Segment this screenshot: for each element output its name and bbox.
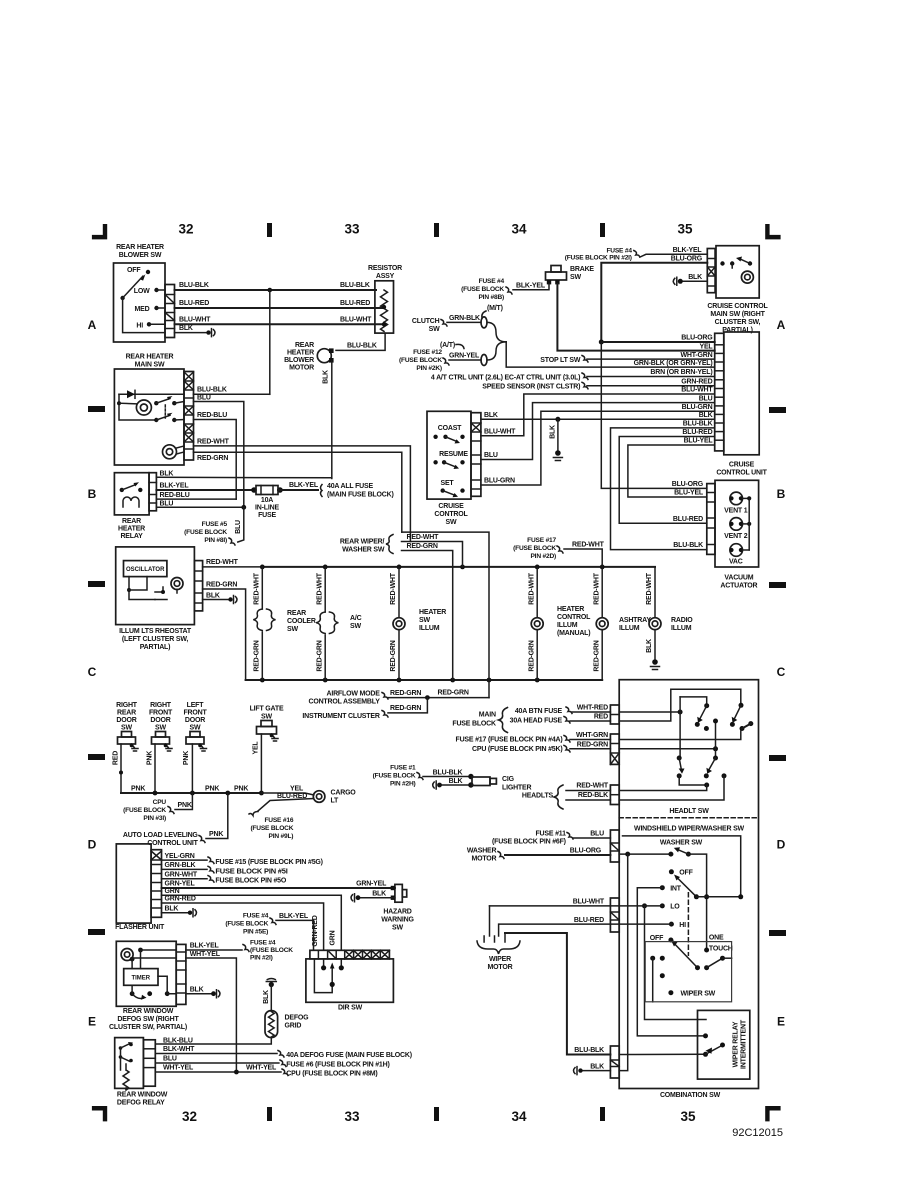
wire BLU-WHT cruise sw to unit: [481, 394, 715, 436]
svg-text:E: E: [88, 1015, 96, 1029]
svg-text:33: 33: [344, 222, 360, 237]
lamp 2: [136, 400, 151, 415]
svg-text:92C12015: 92C12015: [732, 1127, 783, 1139]
wire GRN-WHT flasher: [162, 878, 208, 880]
wire BLK combination sw ground: [582, 1070, 610, 1072]
relay coil resistor: [123, 1064, 129, 1090]
wire RED head fuse: [564, 717, 570, 724]
flasher unit connector: [151, 850, 161, 918]
svg-text:WINDSHIELD WIPER/WASHER SW: WINDSHIELD WIPER/WASHER SW: [634, 826, 745, 833]
wire RED-GRN main sw to airflow feeder: [402, 532, 489, 698]
wire wiper lower to inner box: [652, 958, 654, 1002]
svg-text:INTERMITTENT: INTERMITTENT: [741, 1019, 748, 1069]
svg-text:A: A: [88, 318, 97, 332]
wire RED-WHT fuse17 to bus: [564, 549, 602, 567]
svg-text:ILLUM LTS RHEOSTAT: ILLUM LTS RHEOSTAT: [119, 628, 192, 635]
svg-text:RED-GRN: RED-GRN: [197, 455, 228, 462]
svg-text:HI: HI: [679, 922, 686, 929]
svg-text:(A/T): (A/T): [440, 342, 455, 349]
combination sw connector D: [610, 830, 619, 862]
wire BLU-ORG to cruise unit pin: [601, 341, 714, 343]
tick right AB: [769, 407, 786, 413]
svg-text:RED-GRN: RED-GRN: [407, 543, 438, 550]
svg-text:DEFOG: DEFOG: [285, 1015, 310, 1022]
svg-text:BLK: BLK: [646, 639, 653, 653]
svg-text:BLU-BLK: BLU-BLK: [197, 386, 227, 393]
ground hazard: [356, 895, 361, 900]
timer box: [124, 969, 158, 986]
MIDDLE: [113, 532, 694, 847]
svg-text:HEADLT SW: HEADLT SW: [669, 808, 709, 815]
svg-text:PIN #8B): PIN #8B): [478, 294, 504, 301]
wire BLU-BLK resistor to blower motor: [336, 333, 385, 350]
svg-text:LT: LT: [331, 798, 340, 805]
ground cruise sw BLK: [555, 450, 561, 456]
svg-text:RED-GRN: RED-GRN: [577, 742, 608, 749]
svg-text:HI: HI: [136, 323, 143, 330]
svg-text:WHT-GRN: WHT-GRN: [680, 352, 712, 359]
wire BLK flasher to ground: [162, 912, 189, 914]
rear window defog sw box: [116, 941, 176, 1006]
ground combination sw: [578, 1068, 582, 1072]
defog sw connector: [176, 944, 186, 1004]
svg-text:WHT-YEL: WHT-YEL: [163, 1065, 194, 1072]
svg-text:GRN-YEL: GRN-YEL: [449, 353, 480, 360]
wire RED-BLU relay: [156, 498, 236, 500]
brake sw: [551, 266, 561, 273]
svg-text:COOLER: COOLER: [287, 618, 316, 625]
svg-text:BLU-WHT: BLU-WHT: [340, 316, 372, 323]
headlt sw internals: [619, 711, 680, 713]
svg-text:CONTROL: CONTROL: [557, 614, 591, 621]
svg-text:B: B: [777, 487, 786, 501]
svg-text:OFF: OFF: [127, 267, 141, 274]
defog grid element: [265, 1011, 278, 1038]
svg-text:WIPER SW: WIPER SW: [681, 991, 716, 998]
svg-text:ILLUM: ILLUM: [419, 625, 440, 632]
wire RED-WHT headlts: [566, 790, 610, 792]
svg-text:OSCILLATOR: OSCILLATOR: [126, 567, 165, 573]
svg-text:FUSE #4: FUSE #4: [250, 940, 276, 947]
relay connector strip: [149, 473, 156, 511]
svg-text:GRN-YEL: GRN-YEL: [165, 881, 196, 888]
node BLU-ORG junction: [599, 340, 604, 345]
svg-text:A: A: [777, 318, 786, 332]
rheostat internals: [129, 577, 155, 600]
svg-text:SW: SW: [287, 626, 298, 633]
svg-text:REAR: REAR: [295, 342, 314, 349]
svg-text:RED-GRN: RED-GRN: [528, 640, 535, 671]
svg-text:RED-WHT: RED-WHT: [576, 783, 609, 790]
svg-text:CONTROL ASSEMBLY: CONTROL ASSEMBLY: [308, 698, 380, 705]
wire RED-GRN airflow to bus: [388, 697, 489, 699]
svg-text:RADIO: RADIO: [671, 617, 693, 624]
rear window defog relay box: [115, 1038, 144, 1089]
lamp P: [163, 445, 177, 459]
svg-text:FUSE #4: FUSE #4: [479, 278, 505, 285]
svg-text:REAR WINDOW: REAR WINDOW: [123, 1008, 174, 1015]
svg-text:FUSE #16: FUSE #16: [264, 817, 293, 824]
tick bottom 1: [267, 1107, 272, 1121]
svg-text:(MANUAL): (MANUAL): [557, 630, 590, 637]
cruise main sw connector: [707, 249, 715, 293]
RED-WHT illumination bus: [262, 566, 655, 568]
svg-text:BLU-RED: BLU-RED: [682, 429, 712, 436]
svg-text:D: D: [777, 838, 786, 852]
svg-text:BRAKE: BRAKE: [570, 266, 594, 273]
wire GRN-BLK clutch (M/T): [447, 321, 481, 323]
svg-text:LIGHTER: LIGHTER: [502, 785, 531, 792]
blower sw connector strip: [165, 285, 175, 338]
svg-text:BLU-YEL: BLU-YEL: [674, 490, 704, 497]
svg-text:SW: SW: [392, 925, 403, 932]
svg-text:REAR HEATER: REAR HEATER: [126, 354, 174, 361]
wiper sw inner box: [645, 942, 731, 1002]
fuse #15 callout: [208, 857, 214, 864]
tick bottom 3: [600, 1107, 605, 1121]
svg-text:RED-GRN: RED-GRN: [593, 640, 600, 671]
wire GRN-YEL clutch (A/T): [449, 359, 481, 361]
node bus dots: [260, 565, 265, 570]
lamp radio illum: [649, 618, 661, 630]
svg-text:BLU-RED: BLU-RED: [277, 793, 307, 800]
svg-text:GRN-BLK (OR GRN-YEL): GRN-BLK (OR GRN-YEL): [634, 360, 713, 367]
rear heater relay box: [114, 473, 149, 515]
svg-text:CPU (FUSE BLOCK PIN #8M): CPU (FUSE BLOCK PIN #8M): [286, 1070, 377, 1077]
svg-text:BLK-YEL: BLK-YEL: [190, 943, 220, 950]
svg-text:4 A/T CTRL UNIT (2.6L) EC-AT C: 4 A/T CTRL UNIT (2.6L) EC-AT CTRL UNIT (…: [431, 374, 580, 381]
svg-text:BLU-ORG: BLU-ORG: [671, 255, 703, 262]
combination sw connector E: [610, 898, 619, 932]
svg-text:PARTIAL): PARTIAL): [140, 644, 171, 651]
svg-text:SW: SW: [350, 623, 361, 630]
relay connector: [143, 1040, 155, 1086]
svg-text:PNK: PNK: [205, 786, 219, 793]
headlt/wiper dashed divider: [619, 817, 758, 819]
svg-text:GRN-YEL: GRN-YEL: [356, 881, 387, 888]
svg-text:ASSY: ASSY: [376, 273, 395, 280]
tick top 2: [434, 223, 439, 237]
wire BLK defog sw to ground: [186, 993, 212, 995]
wiper relay contacts: [703, 1033, 708, 1038]
svg-text:CLUSTER SW, PARTIAL): CLUSTER SW, PARTIAL): [109, 1024, 187, 1031]
rear heater blower sw box: [114, 263, 166, 342]
svg-text:DEFOG RELAY: DEFOG RELAY: [117, 1100, 165, 1107]
radio illum drop: [654, 567, 656, 618]
svg-text:E: E: [777, 1015, 785, 1029]
svg-text:BLK-YEL: BLK-YEL: [289, 482, 319, 489]
svg-text:(FUSE BLOCK PIN #2I): (FUSE BLOCK PIN #2I): [565, 254, 632, 261]
svg-text:MOTOR: MOTOR: [471, 856, 496, 863]
wire BLU-RED to cargo lt: [258, 799, 314, 812]
tick right CD: [769, 755, 786, 761]
svg-text:AUTO LOAD LEVELING: AUTO LOAD LEVELING: [123, 832, 199, 839]
svg-text:COMBINATION SW: COMBINATION SW: [660, 1092, 721, 1099]
wire RED-GRN rear wiper to bus: [402, 551, 453, 681]
svg-text:35: 35: [677, 222, 693, 237]
svg-text:RED-WHT: RED-WHT: [646, 572, 653, 605]
wire BLU-ORG cruise main sw down: [601, 263, 707, 342]
svg-text:BLU-RED: BLU-RED: [340, 300, 370, 307]
washer enclosure wire: [623, 836, 741, 897]
svg-text:BLK-YEL: BLK-YEL: [160, 483, 190, 490]
wire RED-WHT rear wiper to bus: [402, 542, 463, 567]
svg-text:HAZARD: HAZARD: [383, 909, 411, 916]
rear heater main sw box: [114, 369, 184, 465]
svg-text:RED-WHT: RED-WHT: [254, 572, 261, 605]
svg-text:BLK: BLK: [372, 890, 386, 897]
wire BLK return vertical: [619, 854, 628, 1071]
wire LO junction to relay: [645, 906, 707, 1020]
wire BLU-WHT wiper motor: [610, 905, 662, 907]
svg-text:COAST: COAST: [438, 425, 462, 432]
corner mark bottom-right: [765, 1106, 780, 1121]
wire PNK auto load to bus: [206, 793, 228, 839]
svg-text:BLU-BLK: BLU-BLK: [673, 542, 703, 549]
svg-text:CPU (FUSE BLOCK PIN #5K): CPU (FUSE BLOCK PIN #5K): [472, 746, 563, 753]
svg-text:SET: SET: [440, 480, 454, 487]
svg-text:FUSE #12: FUSE #12: [413, 349, 442, 356]
wiper sw LO: [660, 903, 665, 908]
svg-text:PNK: PNK: [147, 751, 154, 765]
svg-text:(FUSE BLOCK: (FUSE BLOCK: [225, 921, 268, 928]
resistor element: [381, 290, 388, 331]
svg-text:34: 34: [511, 222, 527, 237]
relay coil: [123, 497, 139, 507]
svg-text:RED-GRN: RED-GRN: [390, 640, 397, 671]
combination sw connector B: [610, 734, 619, 764]
svg-text:BLU-BLK: BLU-BLK: [574, 1047, 604, 1054]
combination sw connector A: [610, 705, 619, 724]
combination sw connector F: [610, 1046, 619, 1078]
svg-text:GRN: GRN: [165, 888, 180, 895]
svg-text:BLU-ORG: BLU-ORG: [570, 848, 602, 855]
svg-text:PIN #5E): PIN #5E): [243, 929, 268, 936]
combination sw outer box: [619, 680, 758, 1089]
svg-text:BLK: BLK: [449, 778, 463, 785]
svg-text:IN-LINE: IN-LINE: [255, 505, 279, 512]
wire BLK-WHT relay to 40A defog fuse: [155, 1053, 277, 1055]
svg-text:RED-WHT: RED-WHT: [528, 572, 535, 605]
vac valve: [730, 544, 743, 557]
svg-text:DOOR: DOOR: [116, 717, 136, 724]
wire BLK-YEL relay to inline fuse: [156, 489, 252, 491]
heater control illum drop: [536, 567, 538, 618]
svg-text:BLK-YEL: BLK-YEL: [673, 247, 703, 254]
wire BLU-BLK fuse1 to cig lighter: [423, 776, 471, 778]
svg-text:ACTUATOR: ACTUATOR: [720, 583, 757, 590]
svg-text:GRN-BLK: GRN-BLK: [449, 315, 480, 322]
wire BLU cruise sw to unit: [481, 403, 715, 460]
svg-text:FRONT: FRONT: [149, 710, 173, 717]
svg-text:(M/T): (M/T): [487, 305, 503, 312]
wire WHT-YEL defog sw to cpu line: [186, 958, 237, 1072]
svg-text:SW: SW: [155, 725, 166, 732]
main sw connector strip: [184, 372, 194, 461]
svg-text:BLK: BLK: [179, 325, 193, 332]
svg-text:BLU-GRN: BLU-GRN: [484, 478, 515, 485]
svg-text:(FUSE BLOCK: (FUSE BLOCK: [513, 545, 556, 552]
wire BLK blower motor down: [331, 361, 333, 479]
svg-text:VAC: VAC: [729, 559, 743, 566]
svg-text:A/C: A/C: [350, 615, 362, 622]
svg-text:YEL-GRN: YEL-GRN: [165, 853, 195, 860]
wire YEL to cargo lt: [261, 793, 313, 795]
svg-text:REAR: REAR: [117, 710, 136, 717]
svg-text:WASHER SW: WASHER SW: [660, 840, 703, 847]
wire BLK-YEL fuse4 5E to dir sw: [276, 920, 314, 950]
wire RED-BLK headlts: [566, 799, 610, 801]
washer sw contacts: [619, 853, 671, 855]
10A in-line fuse: [251, 487, 257, 493]
combination sw connector C: [610, 785, 619, 805]
svg-text:BLK: BLK: [190, 986, 204, 993]
svg-text:BLK-BLU: BLK-BLU: [163, 1038, 193, 1045]
svg-text:RED-GRN: RED-GRN: [390, 705, 421, 712]
wire GRN-BLK(OR GRN-YEL) merged to cruise unit: [506, 342, 715, 367]
svg-text:PNK: PNK: [131, 786, 145, 793]
svg-text:RED-GRN: RED-GRN: [254, 640, 261, 671]
svg-text:TOUCH: TOUCH: [709, 945, 733, 952]
svg-text:GRN-BLK: GRN-BLK: [165, 862, 196, 869]
ground cig lighter: [437, 783, 442, 788]
wiper sw OFF: [669, 869, 674, 874]
svg-text:RED-WHT: RED-WHT: [593, 572, 600, 605]
svg-text:PNK: PNK: [209, 831, 223, 838]
svg-text:(FUSE BLOCK: (FUSE BLOCK: [250, 947, 293, 954]
tick top 3: [600, 223, 605, 237]
svg-text:BLK: BLK: [688, 274, 702, 281]
tick left DE: [88, 929, 105, 935]
vacuum actuator box: [715, 480, 759, 567]
hazard warning sw: [395, 884, 402, 902]
wire BLK hazard to ground: [359, 897, 395, 899]
svg-text:FUSE #11: FUSE #11: [535, 831, 566, 838]
svg-text:BLU: BLU: [197, 395, 211, 402]
vacuum actuator connector: [707, 484, 715, 555]
svg-text:SW: SW: [121, 725, 132, 732]
svg-text:ILLUM: ILLUM: [619, 625, 640, 632]
wire BLK radio illum to ground: [654, 630, 656, 661]
one touch contact: [704, 948, 709, 953]
blower sw wiper arm: [120, 296, 124, 300]
svg-text:BLU-BLK: BLU-BLK: [347, 343, 377, 350]
wire BLU relay to fuse6: [155, 1062, 279, 1064]
wire BLU-BLK to vacuum actuator: [611, 428, 715, 550]
svg-text:FUSE BLOCK: FUSE BLOCK: [452, 721, 496, 728]
svg-text:ASHTRAY: ASHTRAY: [619, 617, 651, 624]
svg-text:PNK: PNK: [178, 802, 192, 809]
svg-text:(FUSE BLOCK: (FUSE BLOCK: [123, 807, 166, 814]
wire BLK-YEL fuse4 to brake sw: [513, 284, 549, 290]
svg-text:RED-GRN: RED-GRN: [206, 581, 237, 588]
tick bottom 2: [434, 1107, 439, 1121]
svg-text:BLU-BLK: BLU-BLK: [683, 421, 713, 428]
svg-text:(MAIN FUSE BLOCK): (MAIN FUSE BLOCK): [327, 492, 394, 499]
blower sw common wire to BLK: [123, 298, 165, 333]
svg-text:HEATER: HEATER: [557, 606, 584, 613]
svg-text:RED: RED: [113, 751, 120, 765]
svg-text:WHT-YEL: WHT-YEL: [190, 951, 221, 958]
wire BLK cruise main sw with ground: [682, 280, 708, 282]
svg-text:SPEED SENSOR (INST CLSTR): SPEED SENSOR (INST CLSTR): [482, 384, 580, 391]
wire BLU relay: [156, 506, 243, 508]
node airflow junction: [425, 695, 430, 700]
svg-text:HEATER: HEATER: [419, 609, 446, 616]
svg-text:DEFOG SW (RIGHT: DEFOG SW (RIGHT: [117, 1016, 179, 1023]
svg-text:LOW: LOW: [134, 288, 150, 295]
svg-text:CLUSTER SW,: CLUSTER SW,: [715, 319, 761, 326]
svg-text:FUSE #1: FUSE #1: [390, 765, 416, 772]
svg-text:35: 35: [680, 1109, 696, 1124]
wire BLK blower sw to ground: [175, 332, 208, 334]
svg-text:GRN-RED: GRN-RED: [681, 379, 712, 386]
svg-text:CIG: CIG: [502, 776, 515, 783]
svg-text:PIN #2K): PIN #2K): [416, 365, 442, 372]
svg-text:YEL: YEL: [253, 741, 260, 755]
illum lts rheostat box: [116, 547, 195, 625]
fuse block pin 5O callout: [208, 876, 214, 883]
svg-text:(FUSE BLOCK: (FUSE BLOCK: [399, 357, 442, 364]
svg-text:SW: SW: [429, 326, 440, 333]
oscillator box: [124, 561, 167, 577]
svg-text:MOTOR: MOTOR: [488, 964, 513, 971]
wire BLU-RED wiper motor: [610, 923, 671, 925]
svg-text:BLU-RED: BLU-RED: [673, 516, 703, 523]
svg-text:FUSE: FUSE: [258, 512, 276, 519]
svg-text:WHT-RED: WHT-RED: [577, 705, 608, 712]
svg-text:RED-GRN: RED-GRN: [438, 689, 469, 696]
cruise sw connector: [471, 413, 481, 497]
ground blower sw BLK: [206, 330, 210, 334]
svg-text:SW: SW: [190, 725, 201, 732]
svg-text:OFF: OFF: [679, 870, 693, 877]
svg-text:GRN-RED: GRN-RED: [165, 896, 196, 903]
svg-text:BRN (OR BRN-YEL): BRN (OR BRN-YEL): [650, 369, 712, 376]
svg-text:FUSE BLOCK PIN #5I: FUSE BLOCK PIN #5I: [215, 866, 287, 875]
svg-text:BLK: BLK: [323, 370, 330, 384]
wire RED-GRN rheostat to bottom bus: [203, 589, 263, 680]
svg-text:SW: SW: [261, 714, 272, 721]
main sw internal left vertical: [119, 394, 156, 420]
svg-text:MED: MED: [135, 306, 150, 313]
node BLK ground tap: [555, 417, 560, 422]
svg-text:YEL: YEL: [290, 785, 304, 792]
wire WHT-RED btn fuse: [566, 707, 572, 714]
wire GRN-YEL flasher to hazard sw: [162, 887, 395, 889]
wire YEL-GRN flasher: [162, 859, 208, 861]
lamp 3 cruise main sw: [741, 271, 753, 283]
flasher unit box: [116, 844, 151, 923]
wire BLK relay to motor: [156, 476, 331, 479]
svg-text:CONTROL UNIT: CONTROL UNIT: [147, 840, 198, 847]
svg-text:GRID: GRID: [285, 1023, 302, 1030]
svg-text:GRN: GRN: [330, 930, 337, 945]
svg-text:CONTROL: CONTROL: [434, 511, 468, 518]
svg-text:WASHER SW: WASHER SW: [342, 547, 385, 554]
svg-text:SW: SW: [446, 519, 457, 526]
svg-text:WHT-YEL: WHT-YEL: [246, 1065, 277, 1072]
svg-text:DOOR: DOOR: [150, 717, 170, 724]
bullet connector M/T: [481, 317, 487, 328]
svg-text:RED-GRN: RED-GRN: [390, 690, 421, 697]
svg-text:BLOWER: BLOWER: [284, 357, 314, 364]
cruise control main sw box: [716, 246, 759, 298]
dir sw connector: [310, 950, 390, 959]
svg-text:(FUSE BLOCK: (FUSE BLOCK: [461, 286, 504, 293]
ashtray illum drop: [601, 567, 603, 618]
wire WHT-YEL relay to cpu 8M: [155, 1071, 281, 1073]
